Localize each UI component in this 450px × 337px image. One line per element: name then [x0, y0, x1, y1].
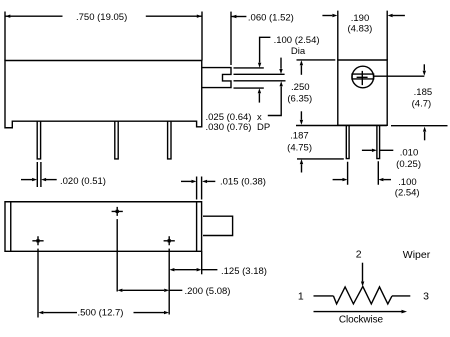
svg-text:.030 (0.76): .030 (0.76)	[206, 122, 252, 133]
svg-text:.750 (19.05): .750 (19.05)	[76, 12, 127, 23]
svg-text:DP: DP	[257, 122, 270, 133]
svg-text:Wiper: Wiper	[403, 249, 431, 261]
svg-text:Dia: Dia	[291, 46, 306, 57]
svg-text:3: 3	[423, 290, 429, 302]
svg-text:(0.25): (0.25)	[396, 159, 421, 170]
svg-text:(4.83): (4.83)	[347, 23, 372, 34]
svg-text:.060 (1.52): .060 (1.52)	[248, 13, 294, 24]
svg-text:.020 (0.51): .020 (0.51)	[60, 176, 106, 187]
svg-text:.010: .010	[400, 147, 419, 158]
svg-text:.250: .250	[291, 82, 310, 93]
svg-text:.200 (5.08): .200 (5.08)	[185, 286, 231, 297]
svg-text:(2.54): (2.54)	[395, 188, 420, 199]
svg-text:.015 (0.38): .015 (0.38)	[220, 177, 266, 188]
svg-text:.100: .100	[398, 177, 417, 188]
svg-text:.500 (12.7): .500 (12.7)	[78, 307, 124, 318]
svg-text:(4.7): (4.7)	[412, 98, 432, 109]
svg-text:Clockwise: Clockwise	[339, 314, 384, 325]
svg-text:.125 (3.18): .125 (3.18)	[221, 266, 267, 277]
svg-text:2: 2	[356, 249, 362, 261]
svg-text:(6.35): (6.35)	[287, 94, 312, 105]
svg-text:(4.75): (4.75)	[287, 143, 312, 154]
svg-text:.187: .187	[290, 131, 309, 142]
svg-text:1: 1	[298, 290, 304, 302]
svg-text:.100 (2.54): .100 (2.54)	[274, 35, 320, 46]
svg-text:.185: .185	[414, 87, 433, 98]
